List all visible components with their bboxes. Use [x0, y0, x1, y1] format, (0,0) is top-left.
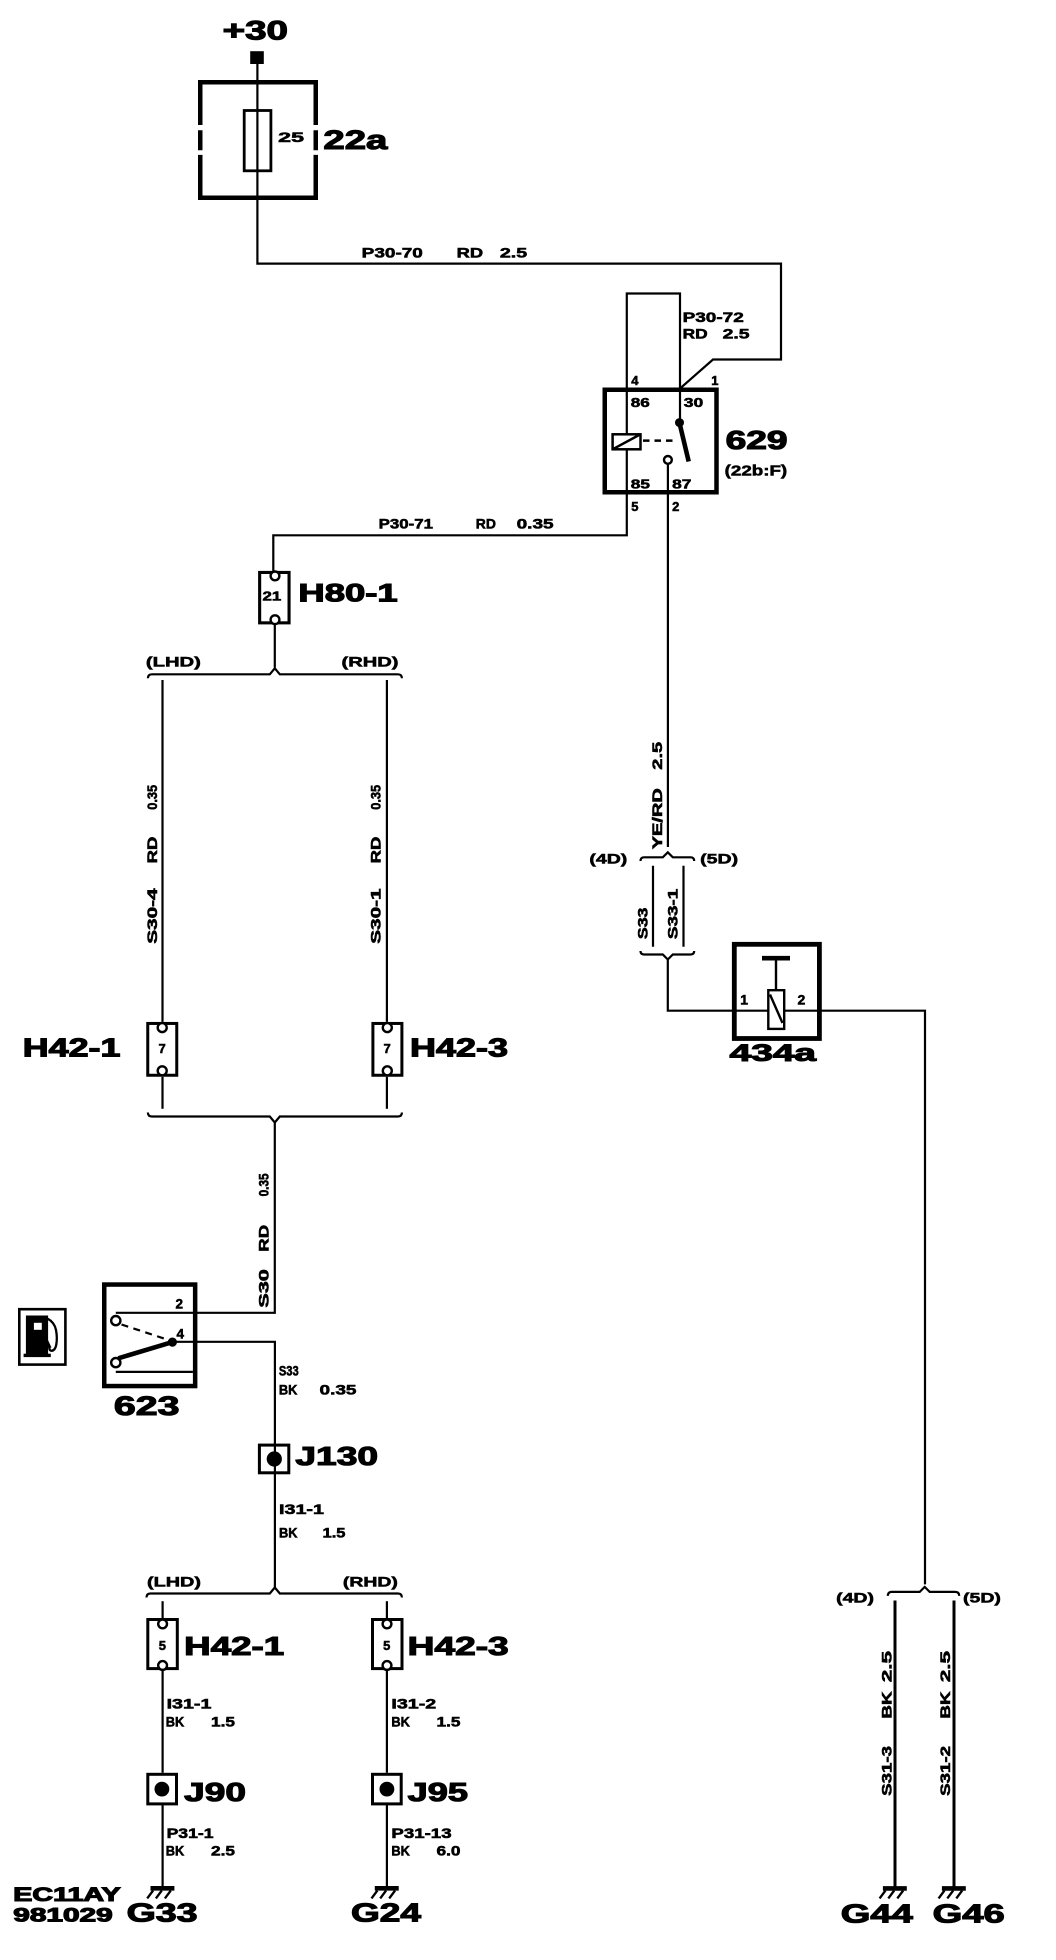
svg-text:1.5: 1.5 [437, 1715, 462, 1730]
wire P30-70 from +30 through fuse to relay pin 1/30 [257, 64, 781, 389]
svg-text:H42-3: H42-3 [408, 1633, 509, 1661]
ground G44 [880, 1888, 907, 1898]
svg-text:J130: J130 [295, 1441, 378, 1471]
svg-text:30: 30 [684, 395, 704, 410]
svg-text:S33-1: S33-1 [665, 888, 680, 939]
svg-text:5: 5 [383, 1638, 390, 1653]
svg-text:2: 2 [672, 499, 679, 514]
svg-text:H42-1: H42-1 [184, 1633, 284, 1661]
svg-text:J90: J90 [184, 1777, 246, 1807]
junction J130 [259, 1445, 288, 1473]
svg-text:S30: S30 [257, 1269, 272, 1308]
svg-text:0.35: 0.35 [320, 1383, 358, 1398]
svg-text:2: 2 [798, 992, 806, 1008]
svg-text:RD: RD [257, 1224, 272, 1251]
merge brace [148, 1113, 402, 1123]
svg-text:1.5: 1.5 [323, 1526, 347, 1541]
svg-text:(RHD): (RHD) [343, 1574, 398, 1590]
svg-text:2.5: 2.5 [880, 1650, 895, 1682]
svg-text:P31-1: P31-1 [167, 1826, 215, 1841]
svg-text:(4D): (4D) [836, 1590, 874, 1606]
svg-text:I31-1: I31-1 [279, 1502, 325, 1517]
ground G24 [372, 1888, 399, 1898]
switch 623 box [104, 1285, 195, 1387]
wire S33 variant [652, 866, 654, 947]
svg-text:1: 1 [740, 992, 748, 1008]
svg-text:(4D): (4D) [589, 851, 627, 867]
svg-text:434a: 434a [730, 1040, 817, 1067]
svg-text:4: 4 [631, 373, 639, 388]
connector H42-3 pin 5 [373, 1620, 403, 1669]
split brace 4D/5D upper [641, 852, 695, 861]
svg-text:5: 5 [159, 1638, 166, 1653]
relay switch arm [675, 418, 684, 427]
fuel pump icon box [19, 1309, 65, 1364]
svg-text:981029: 981029 [13, 1906, 112, 1927]
wire S33-1 variant [682, 866, 684, 947]
svg-text:1.5: 1.5 [211, 1715, 236, 1730]
svg-text:21: 21 [263, 589, 282, 604]
svg-text:87: 87 [672, 476, 691, 491]
svg-text:S31-3: S31-3 [880, 1745, 895, 1796]
svg-text:2.5: 2.5 [211, 1844, 236, 1859]
svg-text:G46: G46 [933, 1899, 1005, 1929]
lower contact line [116, 1371, 193, 1373]
svg-text:4: 4 [177, 1326, 185, 1341]
junction J95 [373, 1774, 402, 1804]
svg-text:BK: BK [938, 1691, 953, 1719]
svg-text:P30-70: P30-70 [362, 246, 423, 261]
wire S31-2 [953, 1601, 956, 1887]
svg-text:RD: RD [476, 517, 496, 532]
wire I31-1 [162, 1669, 164, 1773]
svg-text:623: 623 [114, 1391, 180, 1421]
wire P31-1 [162, 1804, 164, 1887]
svg-text:0.35: 0.35 [145, 784, 160, 809]
svg-text:BK: BK [279, 1526, 298, 1541]
svg-text:BK: BK [391, 1844, 410, 1859]
wire to lower H42-1 [162, 1601, 164, 1618]
wire H80-1 to split [274, 624, 276, 667]
svg-text:G33: G33 [127, 1898, 198, 1928]
connector H80-1 [260, 572, 289, 622]
svg-text:2: 2 [176, 1297, 184, 1312]
svg-text:J95: J95 [408, 1777, 468, 1807]
svg-text:1: 1 [711, 373, 718, 388]
pump symbol [762, 958, 790, 1029]
wire P31-13 [386, 1804, 388, 1887]
dashed link [122, 1325, 165, 1339]
svg-text:H42-3: H42-3 [410, 1035, 508, 1063]
svg-text:0.35: 0.35 [517, 517, 555, 532]
svg-text:G24: G24 [351, 1898, 422, 1928]
split brace 4D/5D bottom right [888, 1587, 959, 1596]
supply terminal square [250, 51, 264, 64]
fuse element 25 [244, 111, 271, 171]
svg-text:86: 86 [631, 395, 650, 410]
wire S31-3 [894, 1601, 897, 1887]
svg-text:22a: 22a [323, 125, 388, 155]
wire S30 down to switch 623 pin 2 [116, 1123, 275, 1313]
svg-text:(5D): (5D) [963, 1590, 1001, 1606]
svg-text:YE/RD: YE/RD [650, 788, 665, 850]
connector H42-3 pin 7 [373, 1023, 402, 1075]
wire below H42-1 [161, 1077, 163, 1109]
svg-text:P30-71: P30-71 [379, 517, 434, 532]
connector H42-1 pin 5 [148, 1620, 178, 1669]
svg-text:7: 7 [384, 1041, 391, 1056]
svg-text:5: 5 [631, 499, 638, 514]
svg-text:(5D): (5D) [700, 851, 738, 867]
wire S30-1 [386, 680, 388, 1022]
lower contact circle [111, 1358, 120, 1367]
svg-text:H42-1: H42-1 [23, 1035, 121, 1063]
wire P30-71 from relay pin 85/5 to H80-1 [273, 451, 627, 571]
svg-text:(LHD): (LHD) [147, 1574, 201, 1590]
svg-text:I31-2: I31-2 [391, 1697, 436, 1712]
split brace LHD/RHD bottom [147, 1588, 402, 1598]
svg-text:H80-1: H80-1 [298, 579, 397, 607]
svg-text:(22b:F): (22b:F) [725, 463, 788, 479]
svg-text:(LHD): (LHD) [146, 654, 201, 670]
wire to lower H42-3 [386, 1601, 388, 1618]
svg-text:S31-2: S31-2 [938, 1746, 953, 1796]
junction J90 [148, 1774, 177, 1804]
svg-text:25: 25 [278, 130, 305, 145]
connector H42-1 pin 7 [148, 1023, 177, 1075]
svg-text:BK: BK [279, 1383, 298, 1398]
svg-text:2.5: 2.5 [938, 1650, 953, 1682]
wire from relay pin 87/2 down [667, 464, 669, 847]
ground G33 [147, 1888, 174, 1898]
wire I31-2 [386, 1669, 388, 1773]
svg-text:2.5: 2.5 [650, 741, 665, 770]
wire S30-4 [161, 680, 163, 1022]
wire to pump 434a pin 1 [668, 960, 736, 1011]
svg-text:BK: BK [166, 1715, 185, 1730]
svg-text:RD: RD [369, 836, 384, 863]
fuse box 22a dashed enclosure [198, 80, 318, 200]
wire below H42-3 [386, 1077, 388, 1109]
svg-text:6.0: 6.0 [437, 1844, 461, 1859]
svg-text:+30: +30 [223, 15, 288, 45]
svg-text:P31-13: P31-13 [391, 1826, 452, 1841]
svg-text:S30-4: S30-4 [145, 888, 160, 944]
switch arm 623 [118, 1342, 172, 1358]
svg-text:BK: BK [166, 1844, 185, 1859]
svg-text:EC11AY: EC11AY [13, 1885, 121, 1906]
svg-text:S30-1: S30-1 [369, 888, 384, 944]
svg-text:2.5: 2.5 [500, 246, 528, 261]
relay coil [613, 434, 641, 449]
wire through pump to G44/G46 [736, 1011, 925, 1585]
svg-text:(RHD): (RHD) [342, 654, 399, 670]
svg-text:RD: RD [683, 327, 708, 342]
fuel pump 434a box [734, 944, 819, 1038]
ground G46 [939, 1888, 966, 1898]
wire jumper relay pins 4/86 to 1/30 [627, 294, 680, 435]
svg-text:BK: BK [880, 1691, 895, 1719]
svg-text:G44: G44 [841, 1899, 914, 1929]
relay 629 box [605, 390, 717, 493]
svg-text:BK: BK [391, 1715, 410, 1730]
svg-text:I31-1: I31-1 [167, 1697, 213, 1712]
merge brace 4D/5D [641, 951, 695, 960]
svg-text:S33: S33 [636, 907, 651, 939]
svg-text:7: 7 [159, 1041, 166, 1056]
svg-text:0.35: 0.35 [369, 784, 384, 809]
svg-text:2.5: 2.5 [723, 327, 751, 342]
contact circle pin 2 [111, 1316, 120, 1325]
contact 87 circle [664, 456, 672, 464]
split brace LHD/RHD [148, 668, 402, 678]
svg-text:85: 85 [631, 476, 650, 491]
svg-text:RD: RD [145, 836, 160, 863]
dashed actuation link [643, 439, 676, 442]
svg-text:S33: S33 [279, 1363, 299, 1378]
svg-text:0.35: 0.35 [257, 1173, 272, 1196]
svg-text:P30-72: P30-72 [683, 310, 744, 325]
svg-text:629: 629 [726, 425, 788, 455]
wire S33 from 623 pin 4 to J130 and down [172, 1342, 275, 1588]
svg-text:RD: RD [457, 246, 484, 261]
